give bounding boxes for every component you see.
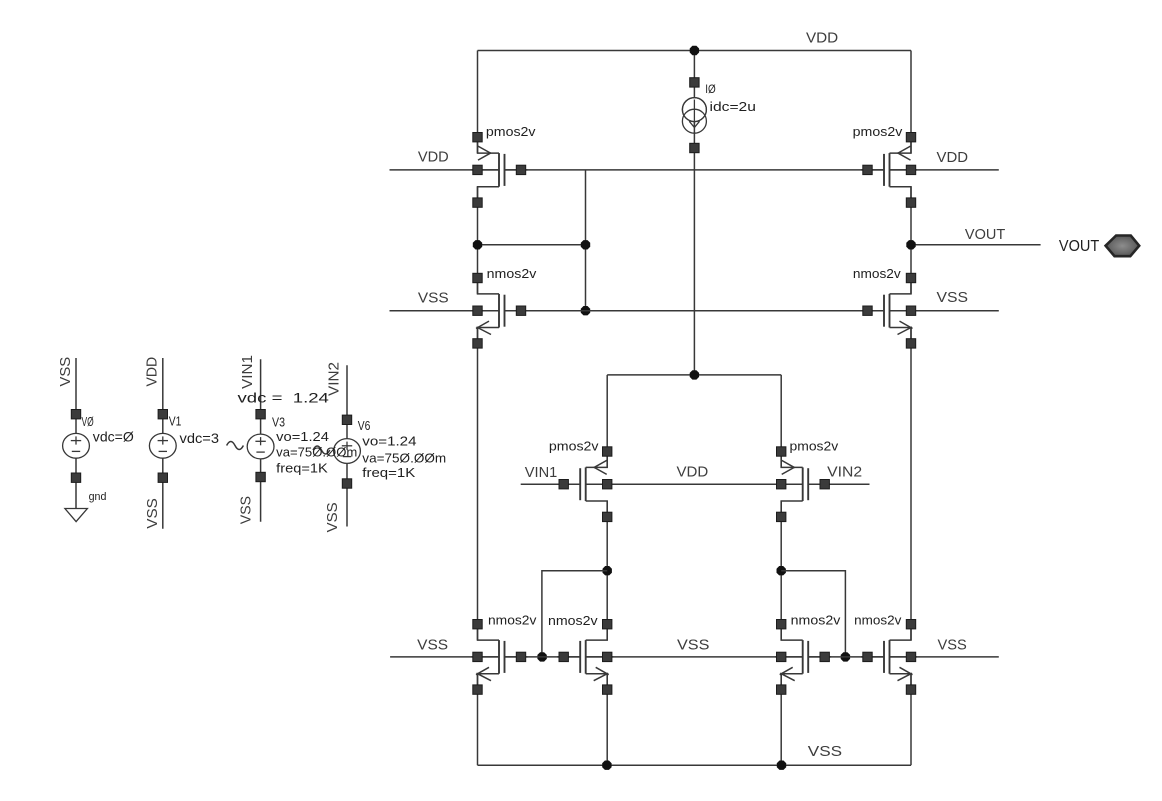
wire: P/N gate tie vertical: [585, 170, 587, 311]
T2 source pin: [603, 685, 612, 694]
V0 plus pin: [71, 410, 80, 419]
svg-text:VSS: VSS: [808, 743, 842, 760]
T4 gate pin: [863, 652, 872, 661]
svg-text:pmos2v: pmos2v: [853, 124, 903, 139]
svg-text:VDD: VDD: [677, 463, 709, 480]
N2 bulk pin: [906, 306, 915, 315]
P1 bulk pin: [473, 165, 482, 174]
wire: diff pair bulk VDD line: [586, 483, 803, 485]
V1 plus pin: [158, 410, 167, 419]
DP1 bulk pin: [603, 480, 612, 489]
wire: left VDD stub to P1 bulk: [390, 169, 500, 171]
svg-text:VIN1: VIN1: [239, 355, 256, 389]
svg-text:nmos2v: nmos2v: [853, 266, 901, 281]
nmos2v transistor T4 body: [861, 624, 917, 690]
wire: right column N2 source down to T4 drain: [910, 328, 912, 641]
DP2 drain pin: [777, 447, 786, 456]
svg-text:VØ: VØ: [82, 414, 94, 429]
wire: N gate net between N1 and N2: [505, 310, 885, 312]
svg-text:VDD: VDD: [937, 149, 969, 166]
svg-text:va=75Ø.ØØm: va=75Ø.ØØm: [362, 450, 446, 465]
svg-text:VSS: VSS: [418, 290, 449, 307]
svg-text:idc=2u: idc=2u: [710, 99, 756, 114]
wire: right column from VDD rail to P2 source: [910, 51, 912, 154]
N1 source pin: [473, 339, 482, 348]
V3 minus pin: [256, 472, 265, 481]
svg-text:gnd: gnd: [89, 491, 107, 503]
junction dot: tail node: [690, 370, 699, 379]
svg-text:VSS: VSS: [238, 496, 255, 524]
svg-text:nmos2v: nmos2v: [548, 613, 598, 628]
P2 drain pin: [906, 133, 915, 142]
svg-text:V3: V3: [272, 415, 285, 430]
wire: T3-T4 gate net: [808, 656, 884, 658]
P2 source pin: [906, 198, 915, 207]
wire: right VDD stub from P2 bulk: [890, 169, 999, 171]
svg-text:VOUT: VOUT: [965, 226, 1005, 243]
V0 minus pin: [71, 473, 80, 482]
svg-text:vo=1.24: vo=1.24: [276, 429, 329, 444]
svg-text:VSS: VSS: [417, 636, 448, 653]
P1 gate pin: [516, 165, 525, 174]
T3 gate pin: [820, 652, 829, 661]
svg-text:VDD: VDD: [806, 30, 838, 47]
P1 source pin: [473, 198, 482, 207]
N1 drain pin: [473, 273, 482, 282]
junction dot: T3/T4 gate node: [841, 652, 850, 661]
wire: VIN2 stub: [808, 483, 869, 485]
junction dot: bottom rail / T2: [602, 761, 611, 770]
svg-text:VSS: VSS: [144, 498, 161, 529]
V3 plus pin: [256, 410, 265, 419]
T3 source pin: [777, 685, 786, 694]
junction dot: VOUT node: [906, 240, 915, 249]
junction dot: VDD rail / I0: [690, 46, 699, 55]
I0 top pin: [690, 78, 699, 87]
pmos2v transistor DP2 body: [775, 451, 831, 517]
T2 bulk pin: [603, 652, 612, 661]
svg-text:VOUT: VOUT: [1059, 238, 1100, 255]
T4 source pin: [906, 685, 915, 694]
T1 source pin: [473, 685, 482, 694]
N2 drain pin: [906, 273, 915, 282]
wire: VIN1 stub: [521, 483, 581, 485]
P2 gate pin: [863, 165, 872, 174]
pmos2v transistor P2 body: [861, 137, 917, 203]
wire: DP2 drain down to T3 drain: [780, 501, 782, 640]
voltage source V0 symbol: [63, 433, 90, 458]
svg-text:VDD: VDD: [143, 357, 160, 387]
junction dot: right load node: [777, 566, 786, 575]
svg-text:nmos2v: nmos2v: [854, 613, 902, 628]
T3 bulk pin: [777, 652, 786, 661]
svg-text:VSS: VSS: [937, 289, 969, 306]
T3 drain pin: [777, 620, 786, 629]
DP2 gate pin: [820, 480, 829, 489]
nmos2v transistor T1 body: [472, 624, 528, 690]
svg-text:va=75Ø.ØØm: va=75Ø.ØØm: [276, 445, 357, 460]
svg-text:V6: V6: [358, 418, 371, 433]
T4 bulk pin: [906, 652, 915, 661]
wire: V3 lead VIN1 to VSS: [260, 359, 262, 522]
svg-text:IØ: IØ: [705, 82, 716, 96]
svg-text:pmos2v: pmos2v: [486, 124, 536, 139]
wire: right gate feedback L: [781, 571, 845, 657]
I0 bottom pin: [690, 143, 699, 152]
V6 minus pin: [342, 479, 351, 488]
svg-text:vdc=3: vdc=3: [180, 430, 220, 446]
T2 drain pin: [603, 620, 612, 629]
wire: T1-T2 gate net: [505, 656, 581, 658]
N2 source pin: [906, 339, 915, 348]
svg-text:vdc = 1.24: vdc = 1.24: [238, 390, 330, 406]
nmos2v transistor N1 body: [472, 278, 528, 344]
T4 drain pin: [906, 620, 915, 629]
svg-text:pmos2v: pmos2v: [549, 438, 599, 453]
wire: T4 source to bottom rail: [910, 674, 912, 766]
junction dot: left load node: [603, 566, 612, 575]
P1 drain pin: [473, 133, 482, 142]
DP1 drain pin: [603, 447, 612, 456]
wire: P1 drain down to mirror node: [477, 187, 479, 294]
T1 drain pin: [473, 620, 482, 629]
pmos2v transistor P1 body: [472, 137, 528, 203]
junction dot: mirror node right: [581, 240, 590, 249]
nmos2v transistor N2 body: [861, 278, 917, 344]
wire: mirror node horizontal: [478, 244, 586, 246]
DP1 source pin: [603, 512, 612, 521]
svg-text:nmos2v: nmos2v: [487, 266, 537, 281]
DP2 source pin: [777, 512, 786, 521]
svg-text:freq=1K: freq=1K: [362, 465, 415, 480]
svg-text:nmos2v: nmos2v: [488, 612, 537, 627]
svg-text:VIN2: VIN2: [827, 464, 862, 481]
wire: P gate net between P1 and P2: [505, 169, 885, 171]
voltage source V6 symbol: [313, 439, 360, 464]
junction dot: bottom rail / T3: [777, 761, 786, 770]
wire: T1 source to bottom rail: [477, 674, 479, 766]
voltage source V1 symbol: [149, 433, 176, 458]
wire: left column from VDD rail to P1 source: [477, 51, 479, 154]
wire: right VSS stub from T4 bulk: [890, 656, 999, 658]
svg-text:V1: V1: [169, 414, 182, 429]
nmos2v transistor T2 body: [557, 624, 613, 690]
wire: DP2 source vertical: [780, 375, 782, 468]
ground symbol: [65, 509, 88, 522]
svg-text:vo=1.24: vo=1.24: [362, 434, 416, 449]
V6 plus pin: [342, 415, 351, 424]
wire: I0 branch vertical: [693, 51, 695, 375]
DP1 gate pin: [559, 480, 568, 489]
N2 gate pin: [863, 306, 872, 315]
T1 gate pin: [516, 652, 525, 661]
wire: bottom-left VSS stub to T1 bulk: [390, 656, 499, 658]
wire: T2 source to bottom rail: [606, 674, 608, 766]
wire: left VSS stub to N1 bulk: [390, 310, 500, 312]
wire: right VSS stub from N2 bulk: [890, 310, 999, 312]
svg-text:freq=1K: freq=1K: [276, 461, 328, 476]
svg-text:VIN2: VIN2: [326, 362, 343, 396]
output pin hexagon symbol: [1106, 236, 1140, 257]
wire: middle VSS rail T2 bulk to T3 bulk: [586, 656, 803, 658]
svg-text:VSS: VSS: [677, 636, 709, 653]
wire: P2 drain down to VOUT node: [910, 187, 912, 294]
wire: VOUT horizontal: [911, 244, 1041, 246]
wire: DP1 source vertical: [606, 375, 608, 468]
nmos2v transistor T3 body: [775, 624, 831, 690]
wire: V0 top lead with VSS net: [75, 358, 77, 509]
svg-text:VSS: VSS: [57, 357, 74, 387]
pmos2v transistor DP1 body: [557, 451, 613, 517]
wire: left gate feedback L: [542, 571, 607, 657]
wire: top VDD rail: [478, 50, 912, 52]
wire: V6 lead VIN2 to VSS: [346, 365, 348, 526]
N1 bulk pin: [473, 306, 482, 315]
svg-text:nmos2v: nmos2v: [791, 613, 841, 628]
svg-text:VSS: VSS: [938, 636, 967, 653]
svg-text:VDD: VDD: [418, 149, 449, 166]
wire: left column N1 source down to T1 drain: [477, 328, 479, 641]
wire: diff pair tail rail: [607, 374, 781, 376]
wire: DP1 drain down to T2 drain: [606, 501, 608, 640]
P2 bulk pin: [906, 165, 915, 174]
wire: T3 source to bottom rail: [780, 674, 782, 766]
svg-text:vdc=Ø: vdc=Ø: [93, 429, 134, 445]
current source I0 symbol: [682, 98, 706, 134]
junction dot: mirror node left: [473, 240, 482, 249]
DP2 bulk pin: [777, 480, 786, 489]
T1 bulk pin: [473, 652, 482, 661]
junction dot: T1/T2 gate node: [537, 652, 546, 661]
N1 gate pin: [516, 306, 525, 315]
wire: V1 lead VDD to VSS: [162, 358, 164, 529]
T2 gate pin: [559, 652, 568, 661]
wire: bottom VSS rail: [478, 764, 912, 766]
voltage source V3 symbol: [227, 434, 274, 459]
V1 minus pin: [158, 473, 167, 482]
svg-text:VIN1: VIN1: [525, 464, 558, 481]
svg-text:pmos2v: pmos2v: [790, 438, 839, 453]
svg-text:VSS: VSS: [324, 502, 341, 532]
junction dot: gate tie on N gate net: [581, 306, 590, 315]
